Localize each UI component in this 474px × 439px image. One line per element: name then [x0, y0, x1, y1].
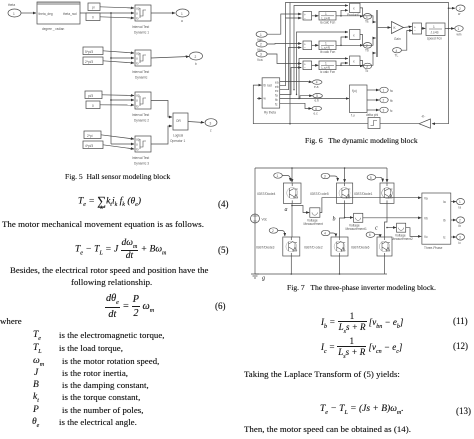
wire product2 to port	[360, 35, 363, 46]
wire VM2 to bridge	[363, 217, 421, 219]
svg-text:pi/3: pi/3	[88, 94, 93, 98]
svg-text:6: 6	[315, 107, 317, 111]
svg-text:ib calc Fcn: ib calc Fcn	[320, 50, 335, 54]
svg-text:Interval Test: Interval Test	[132, 113, 149, 117]
wire theta distribution	[80, 12, 111, 14]
outport eb	[313, 94, 323, 98]
gain triangle	[392, 22, 404, 34]
emf bundle wires	[280, 18, 302, 86]
svg-text:ea: ea	[275, 81, 279, 85]
svg-text:2: 2	[195, 55, 197, 59]
interval test dynamic	[135, 50, 151, 66]
svg-text:5: 5	[316, 94, 318, 98]
transfer fcn 3	[319, 61, 336, 70]
svg-text:3: 3	[366, 65, 368, 69]
svg-text:5*pi/3: 5*pi/3	[85, 50, 93, 54]
svg-text:Measurement2: Measurement2	[392, 237, 413, 241]
svg-text:Dynamic 3: Dynamic 3	[134, 162, 149, 166]
svg-text:f.u: f.u	[351, 114, 355, 118]
svg-text:IGBT/Diode3: IGBT/Diode3	[256, 246, 275, 250]
wire gain to sum4	[404, 27, 412, 28]
svg-text:fb: fb	[275, 98, 278, 102]
svg-text:z: z	[210, 129, 212, 133]
svg-text:theta_rad: theta_rad	[63, 12, 77, 16]
svg-text:Tc: Tc	[365, 69, 369, 73]
wire	[188, 122, 204, 123]
constant 0 b	[86, 101, 100, 109]
output port 1 (a)	[176, 9, 189, 17]
svg-text:−: −	[414, 29, 416, 33]
svg-text:1: 1	[383, 89, 385, 93]
svg-text:2*pi: 2*pi	[87, 134, 93, 138]
svg-text:1: 1	[181, 12, 183, 16]
svg-text:2*pi/3: 2*pi/3	[85, 60, 93, 64]
svg-text:4: 4	[324, 232, 326, 236]
svg-text:1: 1	[13, 12, 15, 16]
wire to speed fcn	[421, 27, 425, 29]
outport Te2	[363, 43, 371, 49]
wire	[21, 12, 36, 14]
svg-text:2: 2	[383, 99, 385, 103]
svg-text:1: 1	[459, 200, 461, 204]
input port Vca	[256, 51, 267, 57]
Eq 13	[320, 404, 404, 416]
gate port g2	[321, 173, 330, 178]
gate port g4	[269, 228, 278, 233]
svg-text:1: 1	[260, 33, 262, 37]
wire Vbc to sum2	[267, 43, 301, 46]
sum 4	[413, 23, 422, 34]
constant 4*pi/3	[83, 141, 103, 149]
wire TL to sum4	[401, 31, 412, 51]
wire to wm port	[445, 28, 454, 30]
left vertical wire	[254, 168, 256, 212]
outport Te1	[363, 13, 371, 19]
svg-text:3: 3	[459, 236, 461, 240]
wire VM3 to bridge	[406, 228, 422, 237]
svg-text:Va: Va	[424, 197, 428, 201]
inport TL	[393, 48, 402, 53]
svg-text:Tb: Tb	[365, 48, 369, 52]
svg-text:Vdc: Vdc	[262, 218, 268, 222]
svg-text:IGBT/D ode2: IGBT/D ode2	[304, 246, 323, 250]
svg-text:f(u): f(u)	[352, 89, 357, 93]
ground	[251, 274, 259, 278]
svg-text:speed Fcn: speed Fcn	[427, 37, 442, 41]
svg-text:3: 3	[210, 121, 212, 125]
svg-text:ic calc Fcn: ic calc Fcn	[320, 70, 335, 74]
svg-text:1: 1	[458, 27, 460, 31]
gate port g5	[321, 230, 330, 235]
svg-text:g: g	[262, 276, 265, 282]
sum 1	[303, 12, 312, 20]
Eq 4	[78, 196, 141, 210]
svg-text:4: 4	[396, 49, 398, 53]
wire product1 to port	[360, 8, 363, 16]
output port 3 (z)	[205, 119, 217, 127]
svg-text:fb: fb	[390, 99, 393, 103]
svg-text:th rad: th rad	[264, 84, 272, 88]
svg-text:c: c	[375, 226, 378, 232]
long theta vertical	[289, 3, 291, 124]
interval test dynamic 3	[135, 136, 151, 152]
svg-text:Dynamic 2: Dynamic 2	[134, 119, 149, 123]
svg-text:Product1: Product1	[347, 13, 360, 17]
svg-text:fc: fc	[275, 103, 278, 107]
Eq 11	[321, 311, 403, 335]
svg-text:lo: lo	[136, 148, 139, 152]
svg-text:Measurement: Measurement	[304, 222, 324, 226]
svg-text:e.a: e.a	[314, 85, 319, 89]
svg-text:u: u	[136, 57, 138, 61]
svg-text:4: 4	[316, 81, 318, 85]
svg-text:degree _ radian: degree _ radian	[42, 27, 65, 31]
Eq 5	[75, 238, 166, 261]
wire to OR	[151, 101, 172, 118]
svg-text:Dynamic: Dynamic	[135, 76, 148, 80]
svg-text:ia: ia	[459, 206, 462, 210]
product 1	[350, 3, 360, 12]
outport ea	[312, 80, 322, 84]
DC source Vdc	[251, 214, 260, 223]
svg-text:3: 3	[324, 175, 326, 179]
IGBT/Diode 5 (bottom col2)	[331, 237, 348, 256]
input port Vab	[256, 31, 267, 37]
bridge measurement block	[422, 193, 451, 244]
svg-text:1: 1	[277, 174, 279, 178]
svg-text:Logical: Logical	[173, 134, 183, 138]
wire to speed outport	[449, 7, 456, 9]
svg-text:pi: pi	[92, 6, 95, 10]
fcn outputs	[367, 89, 379, 91]
wire	[151, 57, 189, 59]
svg-text:u: u	[136, 143, 138, 147]
svg-text:Ib: Ib	[443, 219, 446, 223]
svg-text:fc: fc	[390, 109, 393, 113]
svg-text:Ta: Ta	[365, 19, 369, 23]
voltage measurement 1	[310, 208, 320, 218]
input port 1	[8, 9, 21, 17]
svg-text:a: a	[181, 19, 183, 23]
IGBT/Diode 6 (bottom col3)	[377, 237, 392, 256]
IGBT/Diode 1 (top col1)	[283, 183, 301, 203]
constant 2*pi	[84, 131, 101, 139]
wire to OR	[151, 126, 172, 144]
svg-text:fa: fa	[275, 94, 278, 98]
svg-text:Three-Phase: Three-Phase	[424, 246, 443, 250]
svg-text:Operator 1: Operator 1	[170, 139, 185, 143]
transfer fcn 2	[319, 41, 336, 50]
gate port g1	[274, 173, 283, 178]
svg-text:1: 1	[433, 25, 435, 29]
svg-text:4*pi/3: 4*pi/3	[85, 144, 93, 148]
svg-text:b: b	[195, 62, 197, 66]
outport Te3	[363, 63, 371, 69]
svg-text:b: b	[333, 217, 336, 223]
wire product3 to port	[360, 61, 363, 67]
svg-text:IGBT/Diode1: IGBT/Diode1	[354, 192, 373, 196]
svg-text:2: 2	[459, 219, 461, 223]
svg-text:IGBT/Diode6: IGBT/Diode6	[351, 246, 370, 250]
voltage measurement 3	[397, 223, 406, 232]
svg-text:theta_deg: theta_deg	[39, 12, 53, 16]
outport w top right	[456, 5, 465, 11]
OR block Logical Operator 1	[173, 113, 188, 130]
svg-text:Interval Test: Interval Test	[132, 25, 149, 29]
IGBT/Diode 3 (top col3)	[380, 183, 394, 203]
svg-text:-K-: -K-	[421, 115, 425, 119]
feedback wire long	[253, 85, 419, 124]
svg-text:theta: theta	[8, 3, 15, 7]
svg-text:e.b: e.b	[315, 99, 320, 103]
svg-text:lo: lo	[136, 105, 139, 109]
transfer fcn 1	[319, 12, 336, 20]
svg-text:delta phi: delta phi	[366, 113, 378, 117]
svg-text:Ia: Ia	[443, 200, 446, 204]
input port Vbc	[256, 41, 267, 47]
wire	[151, 12, 175, 14]
phase column verticals	[291, 168, 293, 182]
product 3	[350, 56, 360, 65]
svg-text:Dynamic 1: Dynamic 1	[134, 31, 149, 35]
svg-text:ic: ic	[459, 241, 462, 245]
svg-text:u: u	[136, 12, 138, 16]
outport wm	[455, 26, 463, 32]
svg-text:Vc: Vc	[424, 235, 428, 239]
constant pi/3	[85, 91, 102, 99]
top feedback line	[286, 3, 449, 29]
svg-text:Ry theta: Ry theta	[264, 111, 276, 115]
svg-text:5: 5	[370, 176, 372, 180]
block degree_radian	[37, 2, 80, 24]
svg-text:w: w	[458, 12, 461, 16]
svg-text:up: up	[136, 52, 140, 56]
transfer fcn speed	[426, 23, 445, 36]
top bus wire	[255, 167, 387, 169]
product 2	[350, 30, 360, 40]
svg-text:2: 2	[459, 7, 461, 11]
svg-text:lo: lo	[136, 17, 139, 21]
svg-text:−: −	[304, 17, 306, 21]
wire mux to gain	[378, 27, 391, 29]
svg-text:up: up	[136, 7, 140, 11]
svg-text:wm: wm	[457, 32, 462, 36]
svg-text:3: 3	[383, 109, 385, 113]
wire c to VM3	[387, 227, 396, 229]
svg-text:ib: ib	[459, 224, 462, 228]
interval test dynamic 1	[135, 5, 151, 21]
svg-text:IGBT/D ode5: IGBT/D ode5	[310, 192, 329, 196]
Eq 6	[105, 293, 154, 320]
svg-text:6: 6	[369, 233, 371, 237]
wire a to VM1	[292, 206, 309, 213]
IGBT/Diode 4 (bottom col1)	[283, 237, 300, 256]
IGBT/Diode 2 (top col2)	[337, 183, 353, 203]
svg-text:fa: fa	[390, 89, 393, 93]
bridge outputs	[451, 201, 456, 203]
constant 0	[86, 13, 100, 21]
constant 2*pi/3	[83, 57, 103, 65]
svg-text:up: up	[136, 94, 140, 98]
svg-text:Ic: Ic	[443, 236, 446, 240]
svg-text:up: up	[136, 138, 140, 142]
feedback wire down	[432, 29, 449, 124]
svg-text:2: 2	[260, 43, 262, 47]
delta block on feedback	[368, 118, 380, 129]
svg-text:1: 1	[366, 15, 368, 19]
fcn block	[350, 85, 368, 113]
svg-text:TL: TL	[395, 54, 399, 58]
svg-text:3: 3	[260, 53, 262, 57]
feedback gain triangle	[419, 119, 430, 128]
constant pi	[88, 3, 100, 11]
svg-text:Gain: Gain	[394, 37, 401, 41]
svg-text:e.c: e.c	[314, 111, 319, 115]
interval test dynamic 2	[135, 92, 151, 109]
svg-text:0: 0	[92, 16, 94, 20]
svg-text:u: u	[136, 99, 138, 103]
svg-text:IGBT/Diode4: IGBT/Diode4	[257, 192, 276, 196]
svg-text:Vca: Vca	[257, 58, 263, 62]
svg-text:−: −	[304, 66, 306, 70]
voltage measurement 2	[354, 213, 363, 222]
sum 3	[303, 61, 312, 70]
wire to u inputs	[111, 12, 134, 14]
svg-text:Measurement1: Measurement1	[346, 227, 367, 231]
outport ec	[312, 106, 322, 110]
svg-text:0: 0	[92, 104, 94, 108]
subsystem block	[262, 78, 280, 108]
svg-text:2: 2	[272, 229, 274, 233]
gate port g3	[367, 175, 376, 180]
wire Vab to sum1	[267, 14, 301, 34]
svg-text:ec: ec	[275, 89, 279, 93]
svg-text:Interval Test: Interval Test	[132, 156, 149, 160]
wire VM1 to bridge block	[320, 198, 421, 213]
svg-text:Interval Test: Interval Test	[132, 70, 149, 74]
sum 2	[303, 41, 312, 50]
output port 2 (b)	[190, 52, 203, 60]
svg-text:ia calc Fcn: ia calc Fcn	[320, 21, 335, 25]
svg-text:OR: OR	[176, 119, 181, 123]
constant 5*pi/3	[83, 47, 103, 55]
wire Vca to sum3	[267, 54, 301, 64]
svg-text:−: −	[304, 46, 306, 50]
Eq 12	[321, 336, 402, 360]
mux	[376, 10, 378, 57]
svg-text:lo: lo	[136, 62, 139, 66]
svg-text:J.s+B: J.s+B	[431, 31, 439, 35]
bottom bus wire	[255, 273, 387, 275]
svg-text:a: a	[285, 207, 288, 213]
svg-text:Vb: Vb	[424, 217, 428, 221]
gate port g6	[366, 232, 375, 237]
wire b to VM2	[345, 217, 353, 219]
svg-text:2: 2	[366, 44, 368, 48]
